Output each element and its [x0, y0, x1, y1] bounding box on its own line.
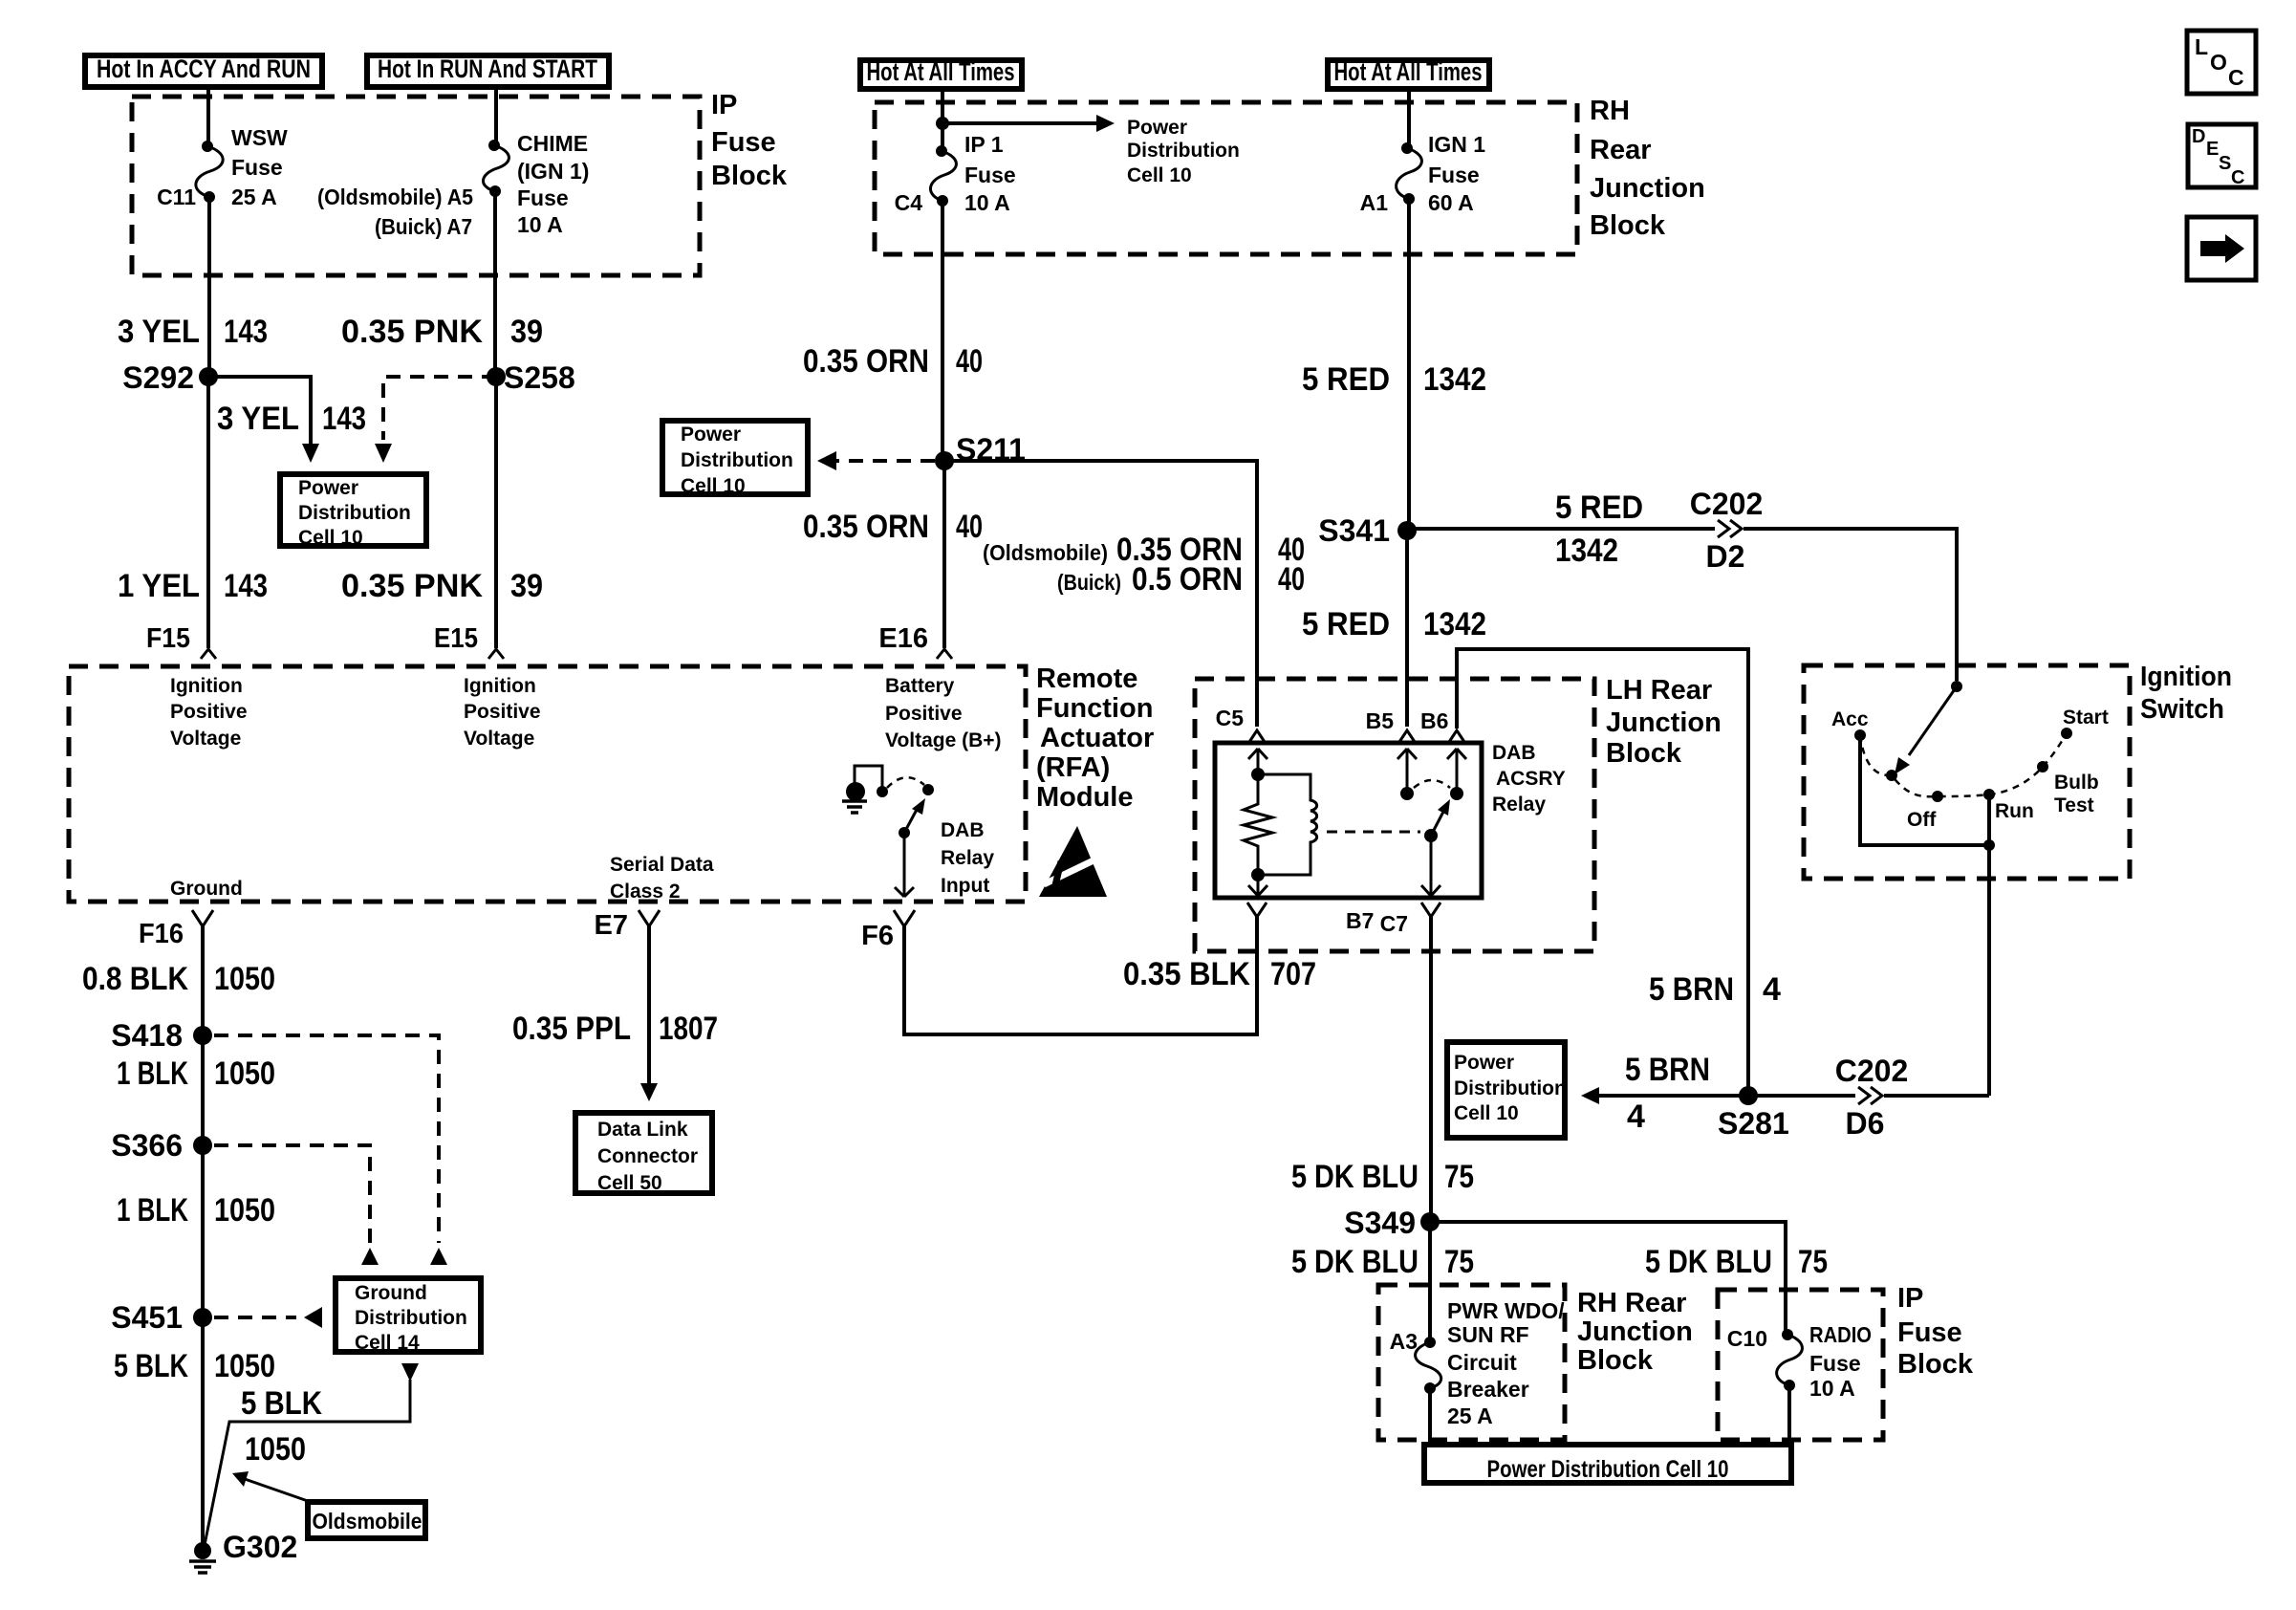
wire label: 3 YEL 143 — [118, 314, 268, 350]
wire label: 5 RED 1342 — [1302, 361, 1486, 398]
svg-text:0.8 BLK: 0.8 BLK — [82, 961, 188, 997]
svg-text:0.35 ORN: 0.35 ORN — [803, 343, 929, 380]
svg-text:Cell 10: Cell 10 — [298, 527, 363, 549]
svg-text:Module: Module — [1036, 782, 1134, 813]
wire: F6 to B7 (lower U-run) — [904, 917, 1257, 1034]
svg-text:D6: D6 — [1846, 1106, 1885, 1141]
wire label: 0.35 ORN 40 — [803, 343, 983, 380]
svg-text:ACSRY: ACSRY — [1496, 768, 1566, 790]
wire: IP 1 fuse to splice S211 — [941, 201, 944, 461]
wire label: 5 RED 1342 (horizontal run) — [1555, 490, 1643, 569]
svg-text:Fuse: Fuse — [231, 155, 283, 180]
svg-text:Relay: Relay — [1492, 794, 1546, 816]
svg-text:(Oldsmobile) A5: (Oldsmobile) A5 — [317, 185, 473, 209]
reference box: LOC — [2187, 31, 2256, 94]
fuse IP 1 10 A — [930, 145, 956, 207]
svg-text:S341: S341 — [1318, 513, 1390, 548]
wire: Hot In RUN And START feed to CHIME fuse — [494, 87, 498, 144]
svg-text:143: 143 — [322, 401, 366, 437]
svg-text:Voltage: Voltage — [464, 728, 534, 750]
wire label: 0.35 PNK 39 — [341, 314, 543, 350]
RH Rear Junction Block (top) dashed outline — [875, 102, 1577, 254]
IP Fuse Block (upper left) label — [711, 90, 788, 191]
relay resistor — [1244, 774, 1272, 875]
svg-text:Hot At All Times: Hot At All Times — [1334, 57, 1483, 86]
svg-text:C: C — [2231, 167, 2244, 188]
svg-text:O: O — [2210, 50, 2227, 75]
svg-text:E: E — [2206, 139, 2219, 160]
wire label: 0.35 ORN 40 (lower) — [803, 509, 983, 545]
svg-text:Ground: Ground — [355, 1282, 427, 1304]
svg-text:Oldsmobile: Oldsmobile — [313, 1509, 422, 1534]
dashed wire: S451 to Ground Distribution (left arrow) — [214, 1307, 322, 1328]
svg-text:Remote: Remote — [1036, 664, 1137, 694]
svg-text:10 A: 10 A — [517, 212, 563, 237]
wire label: 1 BLK 1050 — [117, 1055, 275, 1092]
svg-text:Distribution: Distribution — [1454, 1077, 1567, 1099]
svg-text:39: 39 — [510, 314, 543, 350]
fuse WSW 25 A — [196, 141, 223, 203]
svg-text:C: C — [2228, 65, 2244, 90]
Ignition Switch label — [2140, 662, 2232, 725]
connector chevron F6 — [894, 910, 915, 926]
svg-text:Fuse: Fuse — [1897, 1317, 1962, 1348]
svg-text:1050: 1050 — [214, 1348, 275, 1384]
svg-text:5 BRN: 5 BRN — [1625, 1052, 1710, 1088]
wire label: (Oldsmobile) 0.35 ORN 40 — [983, 532, 1305, 568]
wire: S292 branch to Power Distribution Cell 10 — [208, 377, 311, 444]
svg-text:DAB: DAB — [1492, 742, 1536, 764]
splice S341 — [1318, 513, 1417, 548]
svg-text:40: 40 — [1278, 561, 1305, 598]
wire label: 5 BRN 4 (horizontal) — [1625, 1052, 1710, 1135]
connector C202 D6 symbol — [1855, 1087, 1884, 1104]
svg-text:Power: Power — [298, 477, 358, 499]
label: IGN 1 Fuse 60 A — [1428, 132, 1485, 215]
svg-text:5 DK BLU: 5 DK BLU — [1645, 1244, 1772, 1280]
wire: E7 down to Data Link Connector (arrow) — [640, 926, 658, 1101]
svg-text:Cell 50: Cell 50 — [597, 1172, 662, 1194]
svg-text:Connector: Connector — [597, 1145, 698, 1167]
arrow into Power Distribution box (solid) — [302, 444, 319, 463]
wire: RADIO fuse to box bottom — [1787, 1385, 1791, 1438]
svg-text:C4: C4 — [895, 190, 923, 215]
svg-text:Power: Power — [681, 424, 741, 446]
svg-text:Block: Block — [1606, 738, 1682, 769]
svg-text:Test: Test — [2054, 794, 2094, 816]
svg-text:10 A: 10 A — [964, 190, 1010, 215]
relay coil — [1258, 774, 1317, 875]
svg-text:75: 75 — [1444, 1244, 1474, 1280]
svg-text:75: 75 — [1798, 1244, 1828, 1280]
wire label: 5 BLK 1050 — [114, 1348, 275, 1384]
svg-text:IP: IP — [1897, 1283, 1923, 1314]
svg-text:Ground: Ground — [170, 878, 243, 900]
svg-text:40: 40 — [956, 343, 983, 380]
connector chevron E7 — [639, 910, 660, 926]
svg-text:5 RED: 5 RED — [1302, 361, 1390, 398]
svg-text:IP 1: IP 1 — [964, 132, 1004, 157]
wire label: 5 DK BLU 75 (above S349) — [1291, 1159, 1474, 1195]
arrow wire: S281 to Power Distribution Cell 10 (right) — [1581, 1087, 1748, 1104]
wire label: 5 BRN 4 (riser) — [1649, 971, 1781, 1008]
svg-text:Actuator: Actuator — [1040, 723, 1154, 753]
svg-text:(Buick) A7: (Buick) A7 — [375, 214, 472, 239]
svg-text:Distribution: Distribution — [298, 502, 411, 524]
svg-text:3 YEL: 3 YEL — [217, 401, 299, 437]
connector C202 D2 symbol — [1715, 520, 1744, 537]
svg-text:Circuit: Circuit — [1447, 1350, 1517, 1375]
svg-text:Voltage: Voltage — [170, 728, 241, 750]
wire label: 5 RED 1342 (lower) — [1302, 606, 1486, 642]
arrow wire to Power Distribution Cell 10 (top) — [942, 115, 1115, 132]
svg-text:707: 707 — [1270, 956, 1316, 992]
label: RADIO Fuse 10 A — [1809, 1322, 1872, 1401]
svg-text:Run: Run — [1995, 800, 2034, 822]
dashed arc between relay contacts — [1414, 780, 1450, 788]
svg-text:143: 143 — [224, 314, 268, 350]
svg-text:25 A: 25 A — [231, 185, 277, 209]
svg-text:E7: E7 — [595, 910, 628, 941]
label box: Hot In RUN And START — [367, 54, 609, 87]
dashed rotor arc — [1860, 733, 2067, 796]
svg-text:Fuse: Fuse — [964, 163, 1016, 187]
RH Rear Junction Block (top) label — [1590, 96, 1705, 241]
dashed branch: S258 to Power Distribution Cell 10 — [383, 377, 496, 440]
svg-text:Input: Input — [941, 875, 989, 897]
svg-text:4: 4 — [1763, 971, 1781, 1008]
relay switch arm — [1424, 799, 1450, 842]
svg-text:S366: S366 — [111, 1128, 183, 1163]
connector chevron B5 — [1399, 730, 1415, 742]
IP Fuse Block (bottom) dashed outline — [1718, 1290, 1883, 1440]
RH Rear Junction Block (bottom) label — [1577, 1288, 1693, 1376]
svg-text:1050: 1050 — [214, 1192, 275, 1229]
svg-text:0.35 BLK: 0.35 BLK — [1123, 956, 1250, 992]
wire: IGN 1 fuse to splice S341 — [1407, 199, 1411, 531]
svg-text:25 A: 25 A — [1447, 1403, 1493, 1428]
svg-text:Fuse: Fuse — [711, 127, 776, 158]
Remote Function Actuator (RFA) Module label — [1036, 664, 1154, 813]
svg-text:Voltage (B+): Voltage (B+) — [885, 729, 1002, 751]
splice S366 — [111, 1128, 212, 1163]
svg-text:G302: G302 — [223, 1530, 297, 1564]
svg-text:Ignition: Ignition — [2140, 662, 2232, 692]
wire: switch arm down to pin F6 (arrow) — [895, 833, 914, 897]
wire: G302 riser to Ground Distribution (arrow) — [205, 1363, 419, 1545]
svg-text:5 RED: 5 RED — [1555, 490, 1643, 526]
svg-text:Block: Block — [1577, 1345, 1654, 1376]
wire label: 1 YEL 143 — [118, 568, 268, 604]
svg-text:5 BLK: 5 BLK — [241, 1385, 322, 1422]
banner box: Power Distribution Cell 10 — [1424, 1445, 1791, 1483]
label: DAB ACSRY Relay — [1492, 742, 1566, 816]
svg-text:DAB: DAB — [941, 819, 985, 841]
svg-text:F15: F15 — [146, 623, 190, 654]
wire: F16 down to ground G302 — [201, 926, 205, 1547]
component box: Data Link Connector Cell 50 — [575, 1113, 712, 1194]
wire: B6 riser to S281 drop — [1457, 649, 1748, 1096]
component box: Power Distribution Cell 10 (upper left) — [280, 474, 426, 549]
svg-text:0.35 PNK: 0.35 PNK — [341, 314, 483, 350]
junction dot below Run — [1983, 839, 1995, 851]
svg-text:F16: F16 — [139, 919, 184, 949]
svg-text:PWR WDO/: PWR WDO/ — [1447, 1298, 1565, 1323]
svg-text:Hot In ACCY And RUN: Hot In ACCY And RUN — [97, 54, 311, 83]
arrow into Power Distribution box (dashed branch) — [375, 444, 392, 463]
svg-text:(Buick): (Buick) — [1057, 570, 1121, 595]
switch position dot: Bulb Test — [2037, 761, 2099, 816]
splice S281 — [1718, 1086, 1789, 1141]
svg-text:Block: Block — [1590, 210, 1666, 241]
Oldsmobile callout box — [308, 1502, 425, 1538]
wire: S211 down to pin E16 — [942, 461, 946, 648]
svg-text:Hot At All Times: Hot At All Times — [867, 57, 1015, 86]
wire: S258 down to pin E15 — [494, 377, 498, 648]
fuse CHIME (IGN 1) 10 A — [483, 140, 509, 197]
svg-text:D: D — [2192, 126, 2205, 147]
switch position dot: Off — [1907, 791, 1943, 831]
circuit breaker PWR WDO/SUN RF 25 A — [1416, 1337, 1441, 1394]
svg-text:1050: 1050 — [214, 961, 275, 997]
splice S258 — [487, 360, 575, 395]
svg-text:1 BLK: 1 BLK — [117, 1055, 188, 1092]
svg-text:5 DK BLU: 5 DK BLU — [1291, 1159, 1419, 1195]
wire label: 1 BLK 1050 (second) — [117, 1192, 275, 1229]
label: Power Distribution Cell 10 (top) — [1127, 117, 1240, 186]
svg-text:SUN RF: SUN RF — [1447, 1322, 1529, 1347]
ground symbol (DAB relay input common) — [842, 766, 882, 813]
splice S349 — [1344, 1206, 1440, 1240]
svg-text:Fuse: Fuse — [1809, 1351, 1861, 1376]
switch position dot: Start — [2061, 707, 2109, 739]
svg-text:4: 4 — [1627, 1099, 1645, 1135]
svg-text:1 YEL: 1 YEL — [118, 568, 200, 604]
relay coil pin arrow (C5 side, up) — [1248, 749, 1267, 774]
switch position dot: Run — [1983, 789, 2034, 822]
label box: Hot In ACCY And RUN — [85, 54, 322, 87]
svg-text:Ignition: Ignition — [464, 675, 536, 697]
wire: Hot At All Times to IGN 1 fuse — [1407, 89, 1411, 145]
svg-text:C10: C10 — [1727, 1326, 1767, 1351]
svg-text:Breaker: Breaker — [1447, 1377, 1529, 1402]
svg-text:1050: 1050 — [214, 1055, 275, 1092]
dashed arc between contacts — [887, 777, 924, 788]
switch contact dot (between Acc and Off) — [1886, 770, 1897, 781]
label box: Hot At All Times (IGN 1) — [1328, 57, 1489, 89]
svg-text:75: 75 — [1444, 1159, 1474, 1195]
fuse RADIO 10 A — [1777, 1329, 1803, 1391]
svg-text:Serial Data: Serial Data — [610, 854, 714, 876]
wire: Run contact down to D6 row — [1987, 794, 1991, 1096]
svg-text:B6: B6 — [1420, 708, 1448, 733]
wire label: 5 DK BLU 75 (right branch) — [1645, 1244, 1828, 1280]
wire label: 0.35 PPL 1807 — [512, 1011, 718, 1047]
connector chevron F16 — [192, 910, 213, 926]
label: WSW Fuse 25 A — [231, 125, 288, 209]
IP Fuse Block (upper left) dashed outline — [132, 97, 700, 275]
svg-text:Start: Start — [2063, 707, 2109, 729]
switch position dot: Acc — [1831, 708, 1869, 741]
svg-text:0.35 PNK: 0.35 PNK — [341, 568, 483, 604]
wire: S349 down to A3 breaker — [1428, 1222, 1432, 1339]
svg-text:Junction: Junction — [1577, 1316, 1693, 1347]
svg-text:C5: C5 — [1216, 706, 1245, 730]
relay coil pin arrow (B7 side, down) — [1248, 875, 1267, 896]
svg-text:143: 143 — [224, 568, 268, 604]
relay node (coil top) — [1251, 768, 1265, 781]
svg-text:Off: Off — [1907, 809, 1937, 831]
relay contact arrow B5 (up) — [1397, 749, 1417, 788]
svg-text:L: L — [2195, 34, 2208, 59]
wire: S211 right and down to pin C5 — [944, 461, 1257, 727]
connector chevron C7 — [1421, 903, 1440, 917]
label: PWR WDO/ SUN RF Circuit Breaker 25 A — [1447, 1298, 1565, 1428]
dashed mechanical link — [1327, 831, 1420, 834]
svg-text:1807: 1807 — [659, 1011, 718, 1047]
label: Ignition Positive Voltage (F15) — [170, 675, 248, 750]
label: CHIME (IGN 1) Fuse 10 A — [517, 131, 589, 237]
wire: S341 down to pin B5 — [1405, 531, 1409, 727]
contact dot (B+ side) — [877, 786, 888, 797]
svg-text:Distribution: Distribution — [681, 449, 793, 471]
connector chevron B7 — [1247, 903, 1267, 917]
wire label: 3 YEL 143 (branch) — [217, 401, 366, 437]
svg-text:Distribution: Distribution — [355, 1307, 467, 1329]
svg-text:RH Rear: RH Rear — [1577, 1288, 1686, 1318]
wire: splice S292 down to pin F15 — [206, 377, 210, 648]
svg-text:A1: A1 — [1360, 190, 1389, 215]
svg-text:D2: D2 — [1706, 539, 1745, 574]
svg-text:Ignition: Ignition — [170, 675, 243, 697]
svg-text:5 RED: 5 RED — [1302, 606, 1390, 642]
relay contact dot B5 — [1400, 787, 1414, 800]
wire: CHIME fuse to splice S258 — [493, 191, 497, 377]
svg-text:RADIO: RADIO — [1809, 1322, 1872, 1347]
svg-text:IGN 1: IGN 1 — [1428, 132, 1485, 157]
fuse IGN 1 60 A — [1397, 142, 1422, 205]
svg-text:Data Link: Data Link — [597, 1119, 688, 1141]
svg-text:RH: RH — [1590, 96, 1630, 126]
DAB ACSRY Relay box — [1215, 743, 1482, 898]
svg-text:Block: Block — [1897, 1349, 1974, 1380]
contact dot (switched) — [922, 784, 934, 795]
label: DAB Relay Input — [941, 819, 994, 897]
svg-text:B7: B7 — [1346, 908, 1374, 933]
svg-text:Relay: Relay — [941, 847, 994, 869]
svg-text:Fuse: Fuse — [1428, 163, 1480, 187]
junction dot on IP 1 feed — [936, 117, 949, 130]
label: Battery Positive Voltage (B+) — [885, 675, 1002, 751]
label: (Oldsmobile) A5 (Buick) A7 — [317, 185, 473, 239]
svg-text:S349: S349 — [1344, 1206, 1416, 1240]
label box: Hot At All Times (IP 1) — [860, 57, 1022, 89]
svg-text:E15: E15 — [434, 623, 478, 654]
connector chevron B6 — [1449, 730, 1464, 742]
svg-text:Battery: Battery — [885, 675, 955, 697]
component box: Ground Distribution Cell 14 — [336, 1278, 481, 1354]
svg-text:S418: S418 — [111, 1018, 183, 1053]
ESD sensitive device symbol — [1039, 826, 1118, 897]
ignition switch dashed outline — [1804, 665, 2130, 879]
RH Rear Junction Block (bottom) dashed outline — [1378, 1285, 1565, 1440]
component box: Power Distribution Cell 10 (mid left) — [662, 421, 808, 497]
svg-text:0.5 ORN: 0.5 ORN — [1132, 561, 1243, 598]
wire: WSW fuse to splice S292 — [207, 197, 211, 377]
svg-text:1050: 1050 — [245, 1431, 306, 1468]
reference box: DESC — [2188, 124, 2256, 188]
svg-text:E16: E16 — [878, 623, 928, 654]
reference box: next page arrow — [2187, 217, 2256, 280]
svg-text:S451: S451 — [111, 1300, 183, 1335]
wire: S281 to ignition switch riser (D6) — [1748, 1094, 1989, 1098]
connector chevron E16 — [937, 649, 952, 659]
ground G302 — [189, 1530, 297, 1573]
svg-text:LH Rear: LH Rear — [1606, 675, 1712, 706]
svg-text:(IGN 1): (IGN 1) — [517, 159, 589, 184]
svg-text:Rear: Rear — [1590, 135, 1652, 165]
svg-text:Class 2: Class 2 — [610, 881, 681, 903]
splice S451 — [111, 1300, 212, 1335]
wire: Hot In ACCY And RUN feed to WSW fuse — [206, 87, 210, 144]
relay contact dot B6 — [1450, 787, 1463, 800]
svg-text:A3: A3 — [1390, 1329, 1418, 1354]
svg-text:Cell 10: Cell 10 — [681, 475, 746, 497]
connector chevron F15 — [201, 649, 216, 659]
svg-text:Hot In RUN And START: Hot In RUN And START — [378, 54, 597, 83]
svg-text:Junction: Junction — [1590, 173, 1705, 204]
svg-text:1 BLK: 1 BLK — [117, 1192, 188, 1229]
wire: S349 right to C10 fuse — [1430, 1222, 1786, 1332]
svg-text:Power Distribution Cell 10: Power Distribution Cell 10 — [1487, 1456, 1729, 1483]
svg-text:1342: 1342 — [1423, 361, 1486, 398]
svg-text:60 A: 60 A — [1428, 190, 1474, 215]
connector chevron C5 — [1249, 730, 1265, 742]
ignition switch feed dot — [1951, 681, 1962, 692]
wire: Hot At All Times to IP 1 fuse — [941, 89, 944, 148]
svg-text:S: S — [2219, 153, 2231, 174]
IP Fuse Block (bottom) label — [1897, 1283, 1974, 1380]
svg-text:Block: Block — [711, 161, 788, 191]
DAB relay input switch arm — [899, 798, 925, 838]
svg-text:3 YEL: 3 YEL — [118, 314, 200, 350]
dashed arrow: S211 to Power Distribution Cell 10 (mid) — [817, 451, 935, 470]
wire: Acc contact branch — [1860, 735, 1989, 845]
svg-text:(Oldsmobile): (Oldsmobile) — [983, 540, 1108, 565]
svg-text:Positive: Positive — [885, 703, 963, 725]
svg-text:F6: F6 — [861, 921, 894, 951]
svg-text:C7: C7 — [1380, 911, 1408, 936]
relay contact arrow B6 (up) — [1447, 749, 1466, 788]
svg-text:Switch: Switch — [2140, 694, 2224, 725]
svg-text:0.35 PPL: 0.35 PPL — [512, 1011, 631, 1047]
svg-text:10 A: 10 A — [1809, 1376, 1855, 1401]
label: Ignition Positive Voltage (E15) — [464, 675, 541, 750]
svg-text:S258: S258 — [504, 360, 575, 395]
svg-text:1342: 1342 — [1555, 533, 1618, 569]
wire: S341 right to ignition switch — [1407, 529, 1957, 681]
svg-text:0.35 ORN: 0.35 ORN — [803, 509, 929, 545]
svg-text:C11: C11 — [157, 185, 196, 209]
wire label: 5 DK BLU 75 (below S349) — [1291, 1244, 1474, 1280]
splice S211 — [935, 432, 1026, 470]
svg-text:5 BLK: 5 BLK — [114, 1348, 188, 1384]
svg-text:IP: IP — [711, 90, 737, 120]
connector chevron E15 — [488, 649, 504, 659]
svg-text:S281: S281 — [1718, 1106, 1789, 1141]
relay node (coil bottom) — [1251, 868, 1265, 881]
LH Rear Junction Block label — [1606, 675, 1722, 769]
